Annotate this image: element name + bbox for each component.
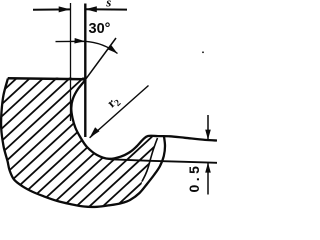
svg-text:0.5: 0.5 bbox=[186, 163, 202, 193]
svg-text:30°: 30° bbox=[89, 21, 111, 37]
svg-text:s: s bbox=[105, 0, 111, 9]
